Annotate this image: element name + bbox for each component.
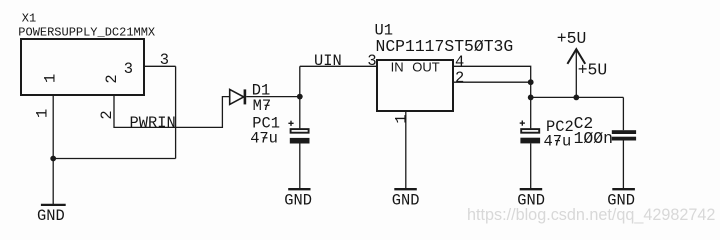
capacitor PC2 top plate — [521, 129, 539, 133]
wire rail down to C2 — [622, 97, 624, 130]
wire X1 pin2 down — [114, 95, 230, 127]
supply symbol +5V stem — [575, 49, 577, 97]
capacitor PC1 bottom plate — [290, 138, 310, 144]
wire X1 pin1 down to junction — [52, 95, 54, 159]
svg-text:POWERSUPPLY_DC21MMX: POWERSUPPLY_DC21MMX — [18, 25, 155, 39]
junction dot X1 pin1/pin3/GND — [50, 156, 56, 162]
svg-text:+5U: +5U — [578, 61, 608, 80]
svg-text:GND: GND — [284, 192, 312, 210]
wire X1 pin3 stub — [144, 65, 176, 67]
svg-text:https://blog.csdn.net/qq_42982: https://blog.csdn.net/qq_42982742 — [467, 206, 715, 224]
wire VIN junction down to PC1 — [299, 97, 301, 129]
svg-text:2: 2 — [103, 74, 121, 83]
U1 pin 1 number (rotated) — [393, 114, 411, 123]
capacitor PC1 plus sign — [288, 122, 293, 124]
svg-text:1ØØn: 1ØØn — [574, 129, 613, 148]
svg-text:PWRIN: PWRIN — [130, 114, 176, 132]
X1 pin 1 inside label (rotated) — [42, 74, 60, 83]
svg-text:1: 1 — [393, 114, 411, 123]
ground symbol GND3 (U1) — [394, 188, 417, 190]
X1 pin 2 number (rotated) — [98, 110, 116, 119]
wire junction to GND — [52, 159, 54, 205]
svg-text:1: 1 — [34, 109, 52, 118]
wire junction to pin3 riser — [53, 158, 175, 160]
connector X1 body — [21, 39, 144, 95]
svg-text:GND: GND — [392, 192, 420, 210]
wire U1 pin2 — [453, 81, 531, 83]
diode D1 cathode bar — [244, 89, 247, 104]
wire C2 to GND — [622, 141, 624, 189]
junction dot rail left — [528, 95, 534, 101]
wire VIN junction up — [299, 66, 301, 96]
junction dot +5V stem — [573, 95, 579, 101]
crossbar on 7 of M7 — [265, 104, 270, 106]
X1 pin 2 inside label (rotated) — [103, 74, 121, 83]
svg-text:NCP1117ST5ØT3G: NCP1117ST5ØT3G — [376, 37, 514, 56]
svg-text:UIN: UIN — [314, 52, 342, 70]
wire U1 pin4 to corner — [453, 66, 531, 82]
wire PC2 to GND — [530, 143, 532, 188]
svg-text:+5U: +5U — [557, 29, 587, 48]
svg-text:47u: 47u — [544, 132, 572, 150]
capacitor C2 top plate — [612, 130, 636, 134]
wire rail down to PC2 — [530, 97, 532, 128]
svg-text:X1: X1 — [22, 12, 36, 26]
capacitor PC2 bottom plate — [520, 138, 540, 144]
svg-text:3: 3 — [367, 52, 376, 70]
ground symbol GND2 (PC1) — [288, 188, 310, 190]
wire VIN to U1 pin3 — [300, 65, 377, 67]
junction dot pin2/pin4 — [528, 79, 534, 85]
crossbar on 7 of 47u (PC2) — [555, 140, 560, 142]
svg-text:3: 3 — [124, 60, 133, 78]
wire down to +5V rail — [530, 82, 532, 97]
wire U1 pin1 to GND — [405, 112, 407, 188]
X1 pin 1 number (rotated) — [34, 109, 52, 118]
wire PC1 to GND — [299, 144, 301, 189]
capacitor C2 bottom plate — [612, 137, 636, 141]
svg-text:IN: IN — [391, 60, 404, 75]
capacitor PC2 plus sign — [520, 122, 525, 124]
svg-text:2: 2 — [455, 69, 464, 87]
wire diode to VIN junction — [246, 96, 300, 98]
junction dot VIN node — [297, 94, 303, 100]
crossbar on 7 of 47u — [263, 137, 268, 139]
ground symbol GND1 (X1) — [41, 204, 66, 206]
svg-text:GND: GND — [37, 207, 65, 225]
ground symbol GND5 (C2) — [612, 188, 635, 190]
wire +5V rail — [531, 96, 624, 98]
wire pin3 riser vertical — [175, 66, 177, 158]
supply symbol +5V arrow — [567, 49, 585, 64]
svg-text:OUT: OUT — [412, 60, 440, 75]
regulator U1 body — [377, 60, 453, 111]
svg-text:1: 1 — [42, 74, 60, 83]
capacitor PC1 top plate — [291, 129, 309, 133]
svg-text:M7: M7 — [253, 97, 271, 115]
diode D1 triangle — [230, 89, 244, 104]
ground symbol GND4 (PC2) — [520, 188, 543, 190]
